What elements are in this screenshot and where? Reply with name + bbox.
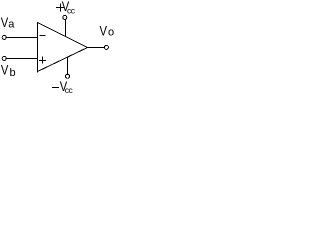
svg-text:cc: cc bbox=[67, 6, 76, 16]
svg-text:V: V bbox=[1, 61, 9, 77]
svg-text:cc: cc bbox=[65, 85, 74, 95]
svg-text:a: a bbox=[8, 18, 15, 30]
svg-text:o: o bbox=[108, 27, 114, 39]
svg-text:b: b bbox=[10, 67, 16, 79]
svg-text:V: V bbox=[100, 23, 108, 39]
